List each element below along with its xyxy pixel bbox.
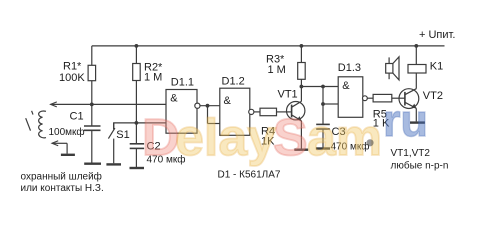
relay K1 <box>408 44 426 73</box>
svg-text:ru: ru <box>383 95 428 146</box>
svg-text:S1: S1 <box>116 129 129 141</box>
resistor R1 <box>88 46 96 105</box>
svg-text:D1.2: D1.2 <box>222 76 245 88</box>
svg-text:D1 - К561ЛА7: D1 - К561ЛА7 <box>218 169 281 180</box>
wire arrow head loop top <box>51 102 57 107</box>
svg-text:&: & <box>224 95 232 107</box>
ground C1 <box>84 162 101 164</box>
svg-text:любые n-p-n: любые n-p-n <box>391 160 449 172</box>
NC contact symbol <box>26 111 33 131</box>
svg-text:VT1,VT2: VT1,VT2 <box>391 148 431 159</box>
wire D1.1 out to D1.2 in <box>200 104 220 124</box>
svg-text:+ Uпит.: + Uпит. <box>419 29 455 41</box>
svg-text:VT1: VT1 <box>278 88 298 100</box>
ground C2 <box>130 167 145 169</box>
wire main input row <box>51 103 166 105</box>
svg-text:D1.3: D1.3 <box>338 62 361 74</box>
resistor R4 <box>254 108 292 116</box>
capacitor C1 <box>84 104 101 162</box>
speaker symbol <box>386 57 399 80</box>
ground VT2 <box>410 121 425 123</box>
svg-text:K1: K1 <box>430 61 443 73</box>
svg-text:R1*: R1* <box>63 60 82 72</box>
op-amp gate D1.3 <box>338 77 367 118</box>
svg-text:100мкф: 100мкф <box>49 126 85 138</box>
resistor R5 <box>367 94 405 102</box>
capacitor C3 <box>316 124 330 147</box>
svg-text:1 M: 1 M <box>268 64 286 76</box>
node B junction delay row <box>135 121 139 125</box>
ground S1 <box>106 163 121 165</box>
node C row R3 VT1 C3 D1.3 <box>300 85 339 125</box>
svg-text:1 M: 1 M <box>144 71 162 83</box>
svg-text:или контакты Н.З.: или контакты Н.З. <box>21 183 104 194</box>
wire loop return arrow <box>52 141 67 154</box>
transistor VT1 <box>287 87 305 149</box>
transistor VT2 <box>399 73 419 121</box>
svg-text:D1.1: D1.1 <box>171 77 194 89</box>
svg-text:&: & <box>342 80 350 92</box>
loop coil symbol <box>39 111 46 138</box>
resistor R2 <box>133 44 141 144</box>
svg-text:elay: elay <box>175 109 276 167</box>
op-amp gate D1.1 <box>166 90 200 134</box>
svg-text:100K: 100K <box>59 72 85 84</box>
svg-text:D: D <box>142 109 180 167</box>
op-amp gate D1.2 <box>220 88 254 135</box>
svg-text:&: & <box>170 93 178 105</box>
svg-text:S: S <box>273 109 308 167</box>
ground loop return <box>61 154 75 156</box>
switch S1 <box>108 123 115 163</box>
ground C3 <box>316 147 330 149</box>
node A junction R1 C1 row <box>90 103 94 107</box>
svg-text:am: am <box>307 109 382 167</box>
ground VT1 <box>294 148 308 150</box>
svg-text:охранный шлейф: охранный шлейф <box>21 171 102 183</box>
resistor R3 <box>298 44 306 87</box>
wire second input row to D1.1 <box>114 123 166 129</box>
watermark DelaySam.ru <box>142 95 428 167</box>
wire top power rail <box>92 45 445 47</box>
capacitor C2 <box>130 144 144 167</box>
svg-text:C1: C1 <box>70 110 84 122</box>
